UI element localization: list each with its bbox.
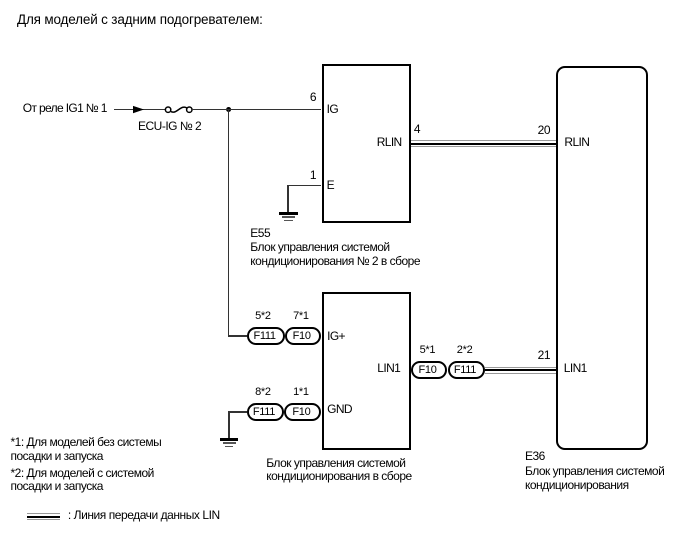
pin LIN1 label (right block) [564, 362, 587, 374]
fuse ECU-IG No.2 [165, 107, 192, 112]
block U1: A/C control unit No.2 [322, 64, 412, 222]
connector F111 (GND) [247, 403, 285, 421]
LIN bus RLIN: pin4 to pin20 [411, 140, 556, 141]
pin 1 number [296, 169, 316, 181]
block U3: A/C amplifier E36 (rounded) [556, 66, 648, 450]
title note [17, 13, 263, 27]
lower block description [266, 457, 412, 484]
connector F111 (LIN1) [448, 361, 486, 379]
pin LIN1 label (left block) [377, 362, 400, 374]
E55 description [250, 241, 420, 268]
wire fuse to IG pin [192, 109, 321, 111]
ground symbol (E pin) [279, 212, 298, 214]
wire from relay to fuse [114, 109, 165, 111]
LIN bus LIN1: to pin21 [485, 367, 556, 368]
wire vertical from junction down [228, 110, 230, 336]
wire GND stub [228, 411, 247, 413]
label E55 [250, 227, 270, 239]
arrow head [133, 106, 144, 113]
legend text [68, 509, 220, 521]
junction dot [226, 107, 231, 112]
wire to IG+ connectors [228, 335, 248, 337]
pin number 6 [296, 91, 316, 103]
footnote *1 [11, 436, 162, 463]
connector label 5*1 [407, 345, 447, 356]
connector F10 (LIN1) [411, 361, 448, 379]
pin RLIN label (right block) [564, 136, 589, 148]
ground symbol (GND pin) [220, 438, 239, 440]
net label: От реле IG1 № 1 [23, 102, 107, 114]
pin 21 number [520, 349, 550, 361]
legend LIN bus symbol [27, 513, 60, 514]
fuse label ECU-IG № 2 [138, 120, 201, 132]
connector label 8*2 [243, 387, 283, 398]
connector F10 (GND) [284, 403, 321, 421]
E36 description [525, 465, 664, 492]
wire ground drop [287, 185, 289, 213]
connector label 7*1 [281, 311, 321, 322]
block U2: A/C control unit [322, 292, 411, 450]
pin 4 number [414, 123, 420, 135]
wire GND drop [228, 411, 230, 439]
wire E pin to ground [287, 185, 321, 187]
pin RLIN label (left block) [377, 136, 402, 148]
footnote *2 [11, 467, 154, 494]
pin 20 number [520, 124, 550, 136]
pin GND label [327, 403, 352, 415]
pin IG+ label [327, 330, 345, 342]
connector F111 (IG+) [247, 327, 285, 345]
pin IG label [327, 103, 338, 115]
label E36 [525, 450, 545, 462]
connector label 2*2 [445, 345, 485, 356]
connector label 1*1 [281, 387, 321, 398]
pin E label [327, 179, 334, 191]
connector label 5*2 [243, 311, 283, 322]
connector F10 (IG+) [285, 327, 322, 345]
